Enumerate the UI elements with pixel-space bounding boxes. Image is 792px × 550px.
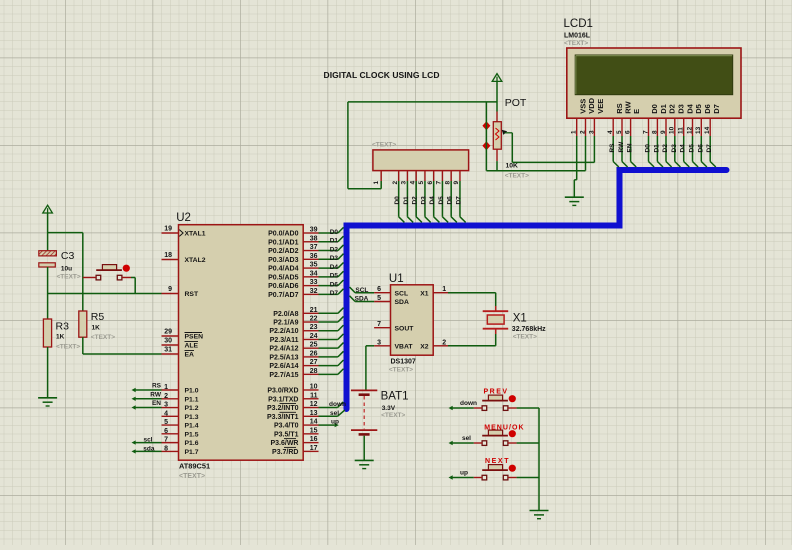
svg-text:D3: D3 [420,196,427,205]
svg-text:RS: RS [609,143,616,153]
wire up to button NEXT [449,469,483,479]
connector pin 1 [373,171,381,185]
svg-text:SOUT: SOUT [395,325,415,332]
wire LCD pin 5 (RW) to bus [618,136,628,167]
wire from U2 P2.5 to bus [319,351,344,357]
svg-text:up: up [460,469,468,476]
svg-text:<TEXT>: <TEXT> [372,142,396,149]
wire pot bottom stub [496,149,498,171]
svg-text:D6: D6 [447,196,454,205]
svg-text:D0: D0 [650,104,659,114]
svg-text:3.3V: 3.3V [382,405,396,412]
svg-text:P0.5/AD5: P0.5/AD5 [268,274,298,281]
svg-text:4: 4 [409,181,416,185]
connector pin 5 and wire D3 to bus [418,171,431,223]
svg-text:3: 3 [588,130,595,134]
svg-text:P0.3/AD3: P0.3/AD3 [268,257,298,264]
svg-text:29: 29 [164,329,172,336]
svg-text:down: down [329,401,346,408]
svg-text:up: up [331,419,339,426]
svg-text:P3.7/RD: P3.7/RD [272,449,298,456]
svg-text:LM016L: LM016L [564,33,591,40]
wire from U2 P2.6 to bus [319,360,344,366]
svg-text:24: 24 [310,333,318,340]
U2 pin P2.0 (21) [273,307,318,318]
wire button right to RST [122,278,135,294]
svg-text:7: 7 [436,181,443,185]
U2 pin RST (9) [162,286,199,298]
LCD pin 9 D2 [660,104,677,136]
svg-text:D6: D6 [330,281,339,288]
U1 pin VBAT (3) [374,339,413,350]
svg-text:D3: D3 [671,144,678,153]
svg-text:5: 5 [377,295,381,302]
svg-text:R3: R3 [56,321,70,333]
svg-text:X1: X1 [420,290,429,297]
svg-text:sel: sel [330,410,339,417]
LCD pin 13 D6 [695,104,712,136]
power terminal VCC at POT [492,74,502,82]
svg-text:P0.0/AD0: P0.0/AD0 [268,231,298,238]
blue data bus [347,170,727,409]
svg-text:<TEXT>: <TEXT> [57,274,81,281]
svg-text:D0: D0 [330,229,339,236]
wire LCD pin1 VSS to ground [574,136,576,197]
wire D4 from U2 P0.4 to bus [319,262,344,270]
crystal X1 [483,306,546,341]
svg-text:scl: scl [143,437,152,444]
svg-text:EN: EN [152,400,161,407]
wire pot left vertical [485,102,487,171]
svg-text:X1: X1 [513,312,527,324]
svg-text:P0.6/AD6: P0.6/AD6 [268,283,298,290]
svg-text:26: 26 [310,350,318,357]
svg-text:1K: 1K [92,324,101,331]
svg-text:P1.7: P1.7 [185,449,199,456]
U2 pin P3.6 (16) [270,436,318,447]
svg-text:<TEXT>: <TEXT> [56,344,80,351]
svg-text:8: 8 [444,181,451,185]
wire power to pot top [496,81,498,121]
wire LCD pin 12 (D5) to bus [689,136,699,167]
LCD pin 10 D3 [669,104,686,136]
LCD LCD1 body [564,18,742,118]
LCD pin 8 D1 [651,104,668,136]
resistor R3 [43,319,80,351]
wire D2 from U2 P0.2 to bus [319,245,344,253]
wire VCC horizontal to R5 branch [48,232,83,234]
svg-text:P3.5/T1: P3.5/T1 [274,431,299,438]
svg-text:8: 8 [164,445,168,452]
wire sel to button MENU/OK [449,435,483,445]
U2 pin P1.6 (7) [162,437,199,448]
svg-text:<TEXT>: <TEXT> [513,334,537,341]
pot terminal diamond top [482,121,490,130]
U2 pin P3.7 (17) [272,445,318,456]
svg-text:1K: 1K [56,333,65,340]
svg-text:P2.0/A8: P2.0/A8 [273,311,298,318]
svg-text:36: 36 [310,253,318,260]
svg-text:DS1307: DS1307 [391,359,416,366]
svg-text:ALE: ALE [185,343,199,350]
LCD pin 6 E [625,109,642,136]
wire up from U2 P3.4 [319,419,339,428]
svg-text:5: 5 [616,130,623,134]
svg-text:LCD1: LCD1 [564,18,593,30]
U2 pin P2.3 (24) [270,333,319,344]
U2 pin P3.4 (14) [274,419,319,430]
U2 pin P3.2 (12) [267,401,319,412]
svg-text:6: 6 [625,130,632,134]
svg-text:D7: D7 [712,104,721,114]
svg-text:U2: U2 [176,212,191,224]
svg-text:AT89C51: AT89C51 [179,462,210,471]
svg-text:10K: 10K [506,163,519,170]
svg-text:P1.4: P1.4 [185,423,199,430]
wire LCD pin2 VDD down [585,136,587,171]
svg-text:12: 12 [686,126,693,134]
connector pin 8 and wire D6 to bus [444,171,457,223]
potentiometer POT body [493,97,529,180]
svg-text:D5: D5 [694,104,703,114]
svg-text:3: 3 [401,181,408,185]
svg-text:P3.0/RXD: P3.0/RXD [267,388,298,395]
wire LCD pin 8 (D1) to bus [653,136,663,167]
svg-text:VBAT: VBAT [395,344,414,351]
wire D0 from U2 P0.0 to bus [319,227,344,235]
svg-text:4: 4 [607,130,614,134]
U2 pin EA (31) [162,347,195,359]
svg-text:VEE: VEE [596,99,605,114]
svg-text:P2.4/A12: P2.4/A12 [269,346,298,353]
svg-text:11: 11 [678,127,685,134]
svg-text:P1.0: P1.0 [185,388,199,395]
svg-text:P0.2/AD2: P0.2/AD2 [268,248,298,255]
svg-text:D1: D1 [403,196,410,205]
wire D7 from U2 P0.7 to bus [319,289,344,297]
wire LCD pin3 VEE down [593,136,595,162]
svg-text:D4: D4 [680,144,687,153]
wire LCD pin 4 (RS) to bus [609,136,619,167]
svg-text:EN: EN [627,143,634,152]
LCD pin 11 D4 [678,103,695,136]
svg-text:P3.1/TXD: P3.1/TXD [268,396,298,403]
svg-text:2: 2 [392,181,399,185]
U2 pin P3.5 (15) [274,427,319,438]
svg-text:P0.4/AD4: P0.4/AD4 [268,266,298,273]
svg-text:13: 13 [695,126,702,134]
svg-text:D0: D0 [645,144,652,153]
svg-text:D4: D4 [429,196,436,205]
wire button NEXT to ground rail [508,477,539,479]
svg-text:2: 2 [164,393,168,400]
svg-text:11: 11 [310,392,318,399]
svg-text:16: 16 [310,436,318,443]
svg-text:<TEXT>: <TEXT> [389,367,413,374]
U2 pin P1.3 (4) [162,410,199,421]
svg-text:34: 34 [310,270,318,277]
svg-text:30: 30 [164,338,172,345]
connector pin 2 and wire D0 to bus [392,171,405,223]
svg-text:10u: 10u [61,265,72,272]
svg-text:BAT1: BAT1 [381,391,409,403]
LCD screen [575,55,733,95]
svg-text:<TEXT>: <TEXT> [381,412,405,419]
wire from U2 P2.2 to bus [319,325,344,331]
connector pin 4 and wire D2 to bus [409,171,422,223]
svg-text:SCL: SCL [355,287,368,294]
svg-text:31: 31 [164,347,172,354]
LCD pin 7 D0 [642,104,659,136]
wire connector pin1 to power rail [348,102,497,189]
U2 pin P3.0 (10) [267,384,318,395]
wire U1 VBAT to battery [366,346,374,390]
U2 pin P2.6 (27) [269,359,318,370]
connector pin 3 and wire D1 to bus [401,171,414,223]
svg-text:D5: D5 [689,144,696,153]
svg-text:P2.2/A10: P2.2/A10 [269,328,298,335]
svg-text:39: 39 [310,227,318,234]
U1 pin X2 (2) [420,339,448,350]
svg-text:VDD: VDD [587,97,596,113]
connector pin 9 and wire D7 to bus [453,171,466,223]
wire U1 X2 to crystal [448,330,496,346]
button NEXT [482,458,516,480]
svg-text:32.768kHz: 32.768kHz [512,326,546,333]
wire SDA from bus to U1 [350,296,375,303]
U2 pin PSEN (29) [162,329,204,341]
svg-text:D2: D2 [412,196,419,205]
wire U1 X1 to crystal [448,293,496,311]
svg-text:X2: X2 [420,344,429,351]
wire SCL from bus to U1 [350,287,375,294]
wire R3 to ground [47,347,49,398]
svg-text:D2: D2 [668,104,677,114]
svg-text:P0.7/AD7: P0.7/AD7 [268,292,298,299]
svg-text:7: 7 [164,437,168,444]
svg-text:P2.5/A13: P2.5/A13 [269,354,298,361]
wire LCD pin 11 (D4) to bus [680,136,690,167]
svg-text:1: 1 [442,286,446,293]
svg-text:P2.7/A15: P2.7/A15 [269,372,298,379]
svg-text:P1.3: P1.3 [185,414,199,421]
U2 pin P2.5 (26) [269,350,318,361]
U2 pin P0.0 (39) [268,227,318,238]
svg-text:P1.6: P1.6 [185,440,199,447]
svg-text:1: 1 [571,130,578,134]
wire down to button PREV [449,400,483,410]
wire LCD pin 6 (EN) to bus [627,136,637,167]
button MENU/OK [482,424,525,445]
svg-text:RW: RW [618,141,625,153]
svg-text:38: 38 [310,235,318,242]
svg-text:RS: RS [152,383,162,390]
U2 pin P0.5 (34) [268,270,318,281]
svg-text:<TEXT>: <TEXT> [91,334,115,341]
wire LCD pin 14 (D7) to bus [706,136,716,167]
wire RST net [48,293,162,295]
LCD pin 3 VEE [588,99,605,136]
ground below buttons [530,511,549,519]
svg-text:10: 10 [669,126,676,134]
wire from U2 P2.0 to bus [319,308,344,314]
wire VCC vertical to C3 [47,213,49,251]
wire LCD pin 9 (D2) to bus [662,136,672,167]
power terminal VCC left [43,205,53,213]
svg-text:P2.3/A11: P2.3/A11 [270,337,299,344]
svg-text:7: 7 [642,130,649,134]
wire D3 from U2 P0.3 to bus [319,254,344,262]
reset push button [96,265,130,280]
wire sel from U2 P3.3 to bus [319,410,345,417]
ground rail for buttons [538,408,540,511]
U2 pin P0.7 (32) [268,288,318,299]
svg-text:D3: D3 [330,255,339,262]
svg-text:9: 9 [168,286,172,293]
svg-text:RST: RST [185,291,199,298]
svg-text:37: 37 [310,244,318,251]
microcontroller U2 body [176,212,303,480]
svg-text:5: 5 [418,181,425,185]
svg-text:33: 33 [310,279,318,286]
svg-text:D5: D5 [330,273,339,280]
U2 pin P2.2 (23) [269,324,318,335]
U1 pin SDA (5) [374,295,409,306]
LCD pin 4 RS [607,103,624,136]
wire sda at U2 P1.7 [132,445,162,453]
svg-text:E: E [632,109,641,114]
svg-text:P0.1/AD1: P0.1/AD1 [268,239,298,246]
svg-text:D7: D7 [330,290,339,297]
U2 pin P1.0 (1) [162,384,199,395]
U2 pin P3.3 (13) [267,410,319,421]
U2 pin P1.2 (3) [162,402,199,413]
svg-text:XTAL1: XTAL1 [185,231,206,238]
svg-text:RW: RW [150,391,162,398]
svg-text:D4: D4 [685,103,694,113]
svg-text:SDA: SDA [395,299,409,306]
wire from U2 P2.3 to bus [319,334,344,340]
svg-text:23: 23 [310,324,318,331]
U2 pin P1.1 (2) [162,393,199,404]
svg-text:D7: D7 [455,196,462,205]
svg-text:12: 12 [310,401,318,408]
U2 pin P1.7 (8) [162,445,199,456]
U2 pin P0.6 (33) [268,279,318,290]
wire C3 to R3 [47,267,49,319]
svg-text:P1.2: P1.2 [185,405,199,412]
svg-text:28: 28 [310,368,318,375]
svg-text:RS: RS [615,103,624,113]
LCD pin 2 VDD [579,97,596,136]
wire D1 from U2 P0.1 to bus [319,236,344,244]
U2 pin P0.3 (36) [268,253,318,264]
wire from U2 P2.4 to bus [319,343,344,349]
svg-text:D4: D4 [330,264,339,271]
U2 pin XTAL2 (18) [162,252,206,264]
pot wiper arrow and wire [502,130,513,163]
wire R5 to EA [83,337,162,354]
svg-text:<TEXT>: <TEXT> [564,40,588,47]
svg-text:<TEXT>: <TEXT> [505,173,529,180]
U2 pin P0.1 (38) [268,235,318,246]
U2 pin XTAL1 (19) [162,226,206,238]
svg-text:13: 13 [310,410,318,417]
svg-text:P1.1: P1.1 [185,396,199,403]
LCD pin 12 D5 [686,104,703,136]
svg-text:P3.2/INT0: P3.2/INT0 [267,405,299,412]
svg-text:R5: R5 [91,311,105,323]
U1 pin SCL (6) [374,286,408,297]
svg-text:SCL: SCL [395,290,409,297]
U2 pin P2.4 (25) [269,342,318,353]
LCD pin 1 VSS [571,99,588,136]
connector pin 7 and wire D5 to bus [436,171,449,223]
svg-text:P3.3/INT1: P3.3/INT1 [267,414,299,421]
svg-text:9: 9 [660,130,667,134]
svg-text:VSS: VSS [578,99,587,114]
svg-text:EA: EA [185,352,195,359]
svg-text:22: 22 [310,316,318,323]
ground below battery [355,460,374,468]
svg-text:18: 18 [164,252,172,259]
svg-text:2: 2 [442,339,446,346]
ground below R3 [38,398,57,406]
svg-text:14: 14 [704,126,711,134]
svg-text:P3.4/T0: P3.4/T0 [274,423,299,430]
svg-text:3: 3 [377,339,381,346]
svg-text:DIGITAL CLOCK USING LCD: DIGITAL CLOCK USING LCD [324,70,440,80]
svg-text:<TEXT>: <TEXT> [179,473,205,480]
pot terminal diamond bottom [482,141,490,150]
svg-text:17: 17 [310,445,318,452]
wire D6 from U2 P0.6 to bus [319,280,344,288]
U1 pin X1 (1) [420,286,448,297]
svg-text:POT: POT [505,97,527,109]
U2 pin ALE (30) [162,338,199,350]
svg-text:C3: C3 [61,250,75,262]
capacitor C3 [39,250,81,281]
wire VDD net to LCD pin2 [486,170,585,172]
svg-text:P3.6/WR: P3.6/WR [270,440,298,447]
U2 pin P1.4 (5) [162,419,199,430]
wire scl at U2 P1.6 [132,437,162,445]
svg-text:5: 5 [164,419,168,426]
wire button MENU/OK to ground rail [508,442,539,444]
svg-text:SDA: SDA [355,296,369,303]
resistor R5 [79,311,115,341]
battery BAT1 [351,390,409,434]
U1 pin SOUT (7) [374,321,414,332]
U2 pin P0.4 (35) [268,262,318,273]
svg-text:D5: D5 [438,196,445,205]
wire VEE net to LCD pin3 [512,161,594,163]
svg-text:35: 35 [310,262,318,269]
svg-text:sel: sel [462,435,471,442]
svg-text:P2.1/A9: P2.1/A9 [273,320,298,327]
wire VCC branch to R5 [82,233,84,311]
RTC U1 body [389,273,433,374]
wire button PREV to ground rail [508,407,539,409]
svg-text:14: 14 [310,419,318,426]
svg-text:D2: D2 [330,246,339,253]
button PREV [482,389,516,411]
svg-text:6: 6 [377,286,381,293]
wire from U2 P2.7 to bus [319,369,344,375]
wire button left to VCC branch [83,277,96,279]
svg-text:6: 6 [427,181,434,185]
svg-text:6: 6 [164,428,168,435]
